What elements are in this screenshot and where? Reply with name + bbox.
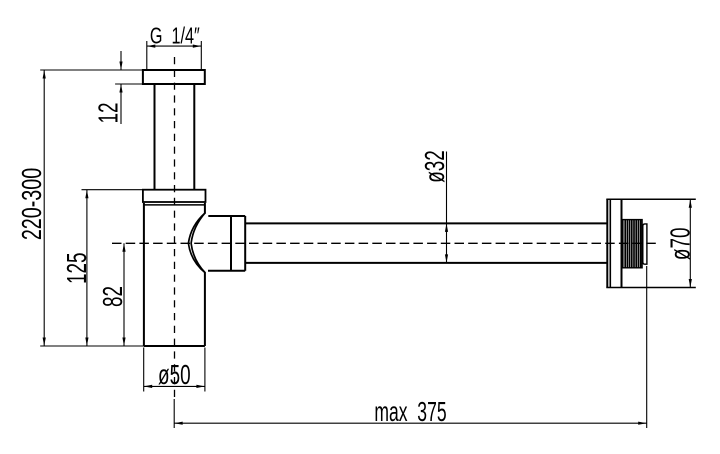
arrow G1/4 left bbox=[147, 45, 156, 48]
trap cup right wall lower segment bbox=[204, 273, 206, 346]
dimension 12 upper leg bbox=[120, 51, 122, 70]
svg-text:ø50: ø50 bbox=[158, 359, 191, 391]
standpipe left wall bbox=[154, 84, 156, 190]
dimension o70 line bbox=[689, 199, 691, 287]
arrow o32 bottom bbox=[445, 254, 448, 263]
wall flange disc top edge and dimension extension bbox=[606, 198, 696, 200]
arrow o32 top bbox=[445, 223, 448, 232]
arrow 125 top bbox=[85, 190, 88, 199]
vertical centerline of standpipe bbox=[174, 57, 176, 399]
arrow 220-300 top bbox=[43, 70, 46, 79]
arrow o70 bottom bbox=[689, 279, 692, 288]
dimension 220-300 line bbox=[43, 70, 45, 346]
extension line cup bottom to left bbox=[40, 345, 144, 347]
arrow max375 left bbox=[174, 422, 183, 425]
thread hatch lines bbox=[625, 220, 640, 268]
wall flange disc right edge bbox=[621, 199, 623, 287]
arrow o50 right bbox=[196, 385, 205, 388]
wall flange disc inner left edge bbox=[609, 199, 611, 287]
wall flange disc outer left edge bbox=[606, 199, 608, 287]
svg-text:G 1/4″: G 1/4″ bbox=[150, 24, 200, 49]
elbow nut inner curve bbox=[191, 213, 205, 273]
dimension G 1/4 line bbox=[147, 45, 202, 47]
svg-text:ø70: ø70 bbox=[665, 228, 697, 261]
arrow 12 lower bbox=[119, 84, 122, 93]
dimension o50 line bbox=[144, 385, 205, 387]
elbow nut right edge bbox=[244, 216, 246, 271]
dimension G 1/4 extension lines bbox=[146, 41, 148, 70]
arrow 82 top bbox=[122, 243, 125, 252]
threaded section outline bbox=[623, 220, 642, 268]
wall flange disc bottom edge and dimension extension bbox=[606, 287, 696, 289]
extension line trap flange top to left (125 dim) bbox=[82, 189, 143, 191]
dimension max375 right extension bbox=[646, 266, 648, 428]
elbow nut inner vertical line bbox=[230, 216, 232, 271]
svg-text:max 375: max 375 bbox=[374, 396, 446, 427]
elbow nut top edge bbox=[208, 215, 245, 217]
standpipe right wall bbox=[193, 84, 195, 190]
arrow 220-300 bottom bbox=[43, 338, 46, 347]
svg-text:12: 12 bbox=[93, 102, 125, 123]
svg-text:ø32: ø32 bbox=[419, 150, 451, 183]
horizontal pipe top edge bbox=[245, 222, 607, 224]
trap cup left wall bbox=[143, 203, 145, 346]
dimension max375 left extension bbox=[173, 399, 175, 428]
top flange of standpipe bbox=[143, 70, 205, 84]
horizontal centerline of pipe bbox=[112, 242, 656, 244]
horizontal pipe bottom edge bbox=[245, 262, 607, 264]
trap body seam line bbox=[144, 204, 205, 206]
arrow 125 bottom bbox=[85, 338, 88, 347]
dimension o32 line bbox=[446, 152, 448, 263]
trap cup bottom bbox=[144, 345, 205, 347]
dimension 82 line bbox=[123, 243, 125, 346]
extension line flange top to left (220-300 top) bbox=[40, 69, 143, 71]
svg-text:82: 82 bbox=[97, 286, 129, 307]
thread end collar bbox=[643, 224, 647, 264]
svg-text:220-300: 220-300 bbox=[17, 168, 48, 240]
elbow nut bottom edge bbox=[208, 270, 245, 272]
dimension 12 lower leg bbox=[120, 85, 122, 125]
extension line flange bottom (12 dim) bbox=[115, 83, 143, 85]
arrow o50 left bbox=[144, 385, 153, 388]
arrow 82 bottom bbox=[122, 338, 125, 347]
trap cup right wall upper segment bbox=[204, 203, 206, 213]
arrow 12 upper bbox=[119, 62, 122, 71]
dimension 125 line bbox=[86, 190, 88, 346]
dimension max375 line bbox=[174, 422, 647, 424]
elbow nut outer curve bbox=[188, 213, 205, 273]
trap body top flange bbox=[143, 190, 206, 202]
arrow G1/4 right bbox=[193, 45, 202, 48]
dimension o50 extension lines bbox=[143, 348, 145, 392]
arrow o70 top bbox=[689, 199, 692, 208]
arrow max375 right bbox=[638, 422, 647, 425]
svg-text:125: 125 bbox=[61, 253, 93, 285]
